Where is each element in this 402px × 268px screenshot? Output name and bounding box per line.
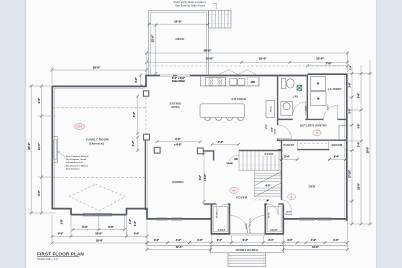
svg-text:x 6'-8": x 6'-8" [205, 174, 207, 181]
svg-text:Specifications: Specifications [66, 167, 81, 170]
svg-text:3'-0": 3'-0" [217, 239, 223, 242]
right dim line outer 26'-6" [367, 60, 372, 225]
post column A [143, 91, 148, 96]
leader to deck stairs [213, 3, 217, 9]
dashed ceiling line lower [53, 176, 146, 178]
eating area label [170, 101, 182, 109]
interior wall: lav/laundry partition [306, 75, 308, 120]
left background band [0, 0, 26, 268]
svg-text:24'-0": 24'-0" [27, 142, 31, 150]
right dim line inner [349, 65, 354, 225]
svg-text:36x80: 36x80 [246, 222, 248, 229]
svg-text:12'-0": 12'-0" [259, 57, 267, 61]
dim row 18'-0" [51, 238, 149, 244]
svg-text:3'-0": 3'-0" [268, 239, 274, 242]
dim 4'-6" hall opening [211, 141, 240, 146]
front steps [228, 253, 266, 267]
pantry shelf dashed [300, 143, 328, 145]
exterior wall: porch north right [283, 218, 347, 221]
dim 12'-0" deck width [148, 19, 210, 25]
svg-text:10'-0": 10'-0" [95, 232, 103, 236]
dim 3'-4" broom opening [328, 156, 348, 161]
svg-text:See Exterior Stair Notes: See Exterior Stair Notes [175, 3, 206, 7]
eating area dashed opening line [145, 98, 147, 134]
dashed ceiling line upper [53, 107, 146, 109]
interior wall: foyer south [204, 203, 284, 205]
svg-text:x 6'-8": x 6'-8" [174, 143, 182, 146]
svg-text:BUTLER'S PANTRY: BUTLER'S PANTRY [300, 123, 327, 127]
svg-text:24x60: 24x60 [216, 211, 219, 218]
svg-text:French: French [285, 213, 293, 216]
butlers pantry door 24x80 [273, 125, 291, 139]
washer [311, 77, 326, 91]
svg-text:COAT: COAT [270, 229, 278, 232]
vanity with sink [281, 102, 293, 116]
toilet [281, 78, 294, 88]
french door 30x80 to den [282, 200, 293, 216]
room tag (red oval) family room [75, 123, 85, 129]
dim row porch y240 [146, 239, 349, 244]
svg-text:STAIR: STAIR [265, 152, 274, 156]
interior wall: stair east / den west [281, 150, 283, 200]
extension lines bottom-left [52, 215, 147, 249]
interior wall: pantry row south [278, 149, 347, 151]
coat closet right [265, 204, 283, 234]
dim 3'-4" pantry opening [279, 156, 299, 161]
svg-text:4'-8": 4'-8" [358, 124, 361, 129]
dim 2'-0" jog [135, 74, 142, 88]
exterior wall: family room south [52, 208, 148, 215]
patio slider [160, 75, 190, 76]
exterior wall: north (kitchen side) [146, 74, 348, 75]
stair upper flight treads [239, 151, 282, 170]
svg-text:4'-0": 4'-0" [265, 184, 270, 187]
svg-text:2'-8": 2'-8" [272, 127, 274, 131]
fireplace note text block [66, 155, 90, 170]
exterior wall: porch north left [147, 218, 212, 221]
stair label [261, 152, 278, 156]
leader to fireplace [58, 152, 65, 157]
L wall kitchen SE [203, 151, 213, 161]
green chase symbol [297, 86, 302, 91]
svg-text:SCALE 3/16" = 1'-0": SCALE 3/16" = 1'-0" [37, 258, 59, 261]
exterior wall: east [345, 74, 347, 222]
svg-text:12'-0": 12'-0" [150, 34, 154, 42]
svg-text:12'-0": 12'-0" [174, 19, 182, 23]
svg-text:12'-6": 12'-6" [312, 246, 320, 249]
svg-text:2'-4": 2'-4" [358, 142, 361, 147]
svg-text:3'-4": 3'-4" [334, 156, 340, 159]
svg-text:4'-0": 4'-0" [154, 239, 160, 242]
svg-text:4'-6": 4'-6" [311, 239, 317, 242]
porch landing box [211, 245, 284, 252]
dim row bay 5'-0"/5'-0" [72, 225, 126, 231]
dashed roof overhang line [148, 65, 348, 67]
right background band [376, 0, 402, 268]
room tag (red oval) butlers pantry [313, 130, 321, 136]
front double door [229, 215, 265, 235]
dishwasher DW [247, 78, 258, 86]
svg-text:4'-6": 4'-6" [333, 239, 339, 242]
dim 2'-6" post spacing [132, 136, 139, 152]
post column C [154, 147, 160, 153]
svg-text:5'-8": 5'-8" [350, 109, 352, 114]
svg-text:6'-0": 6'-0" [37, 189, 41, 195]
svg-text:18'-0": 18'-0" [93, 66, 101, 70]
svg-text:Zero Clearance Electric: Zero Clearance Electric [66, 155, 90, 158]
svg-text:4'-0": 4'-0" [134, 232, 140, 236]
svg-text:COAT: COAT [218, 229, 226, 232]
interior wall: laundry south [305, 118, 347, 120]
note: field verify stair location [174, 0, 207, 7]
dim 12'-0" deck depth [150, 24, 157, 75]
svg-text:2'-0": 2'-0" [135, 76, 138, 82]
svg-text:1'-6": 1'-6" [130, 219, 132, 224]
svg-text:3'-4": 3'-4" [284, 156, 290, 159]
svg-text:FAMILY ROOM: FAMILY ROOM [86, 138, 109, 142]
title: first floor plan [37, 252, 84, 262]
interior wall: lav south [278, 118, 293, 120]
svg-text:4'-0": 4'-0" [58, 232, 64, 236]
svg-text:5'-0": 5'-0" [200, 175, 202, 180]
room tag (red oval) den [288, 194, 296, 200]
dim 6'-0" eating area [133, 95, 139, 135]
svg-text:18'-0": 18'-0" [96, 238, 104, 242]
interior wall: stair north [239, 150, 283, 152]
post column D [197, 148, 203, 154]
interior wall: butlers pantry west [277, 119, 279, 141]
deck exterior stairs [209, 11, 232, 29]
svg-text:DECK: DECK [175, 37, 185, 41]
kitchen counter [200, 77, 259, 86]
interior wall: pantry row north [278, 139, 347, 141]
patio slider label [172, 77, 185, 83]
svg-text:Manufacturer's Written: Manufacturer's Written [66, 164, 89, 167]
room tag (red oval) foyer [230, 187, 239, 193]
svg-text:26'-6": 26'-6" [367, 147, 370, 154]
dim 9'-0" x 6'-8" dining opening [156, 138, 202, 146]
svg-text:174: 174 [77, 125, 82, 129]
svg-text:1'-0": 1'-0" [135, 221, 137, 226]
svg-text:9'-0": 9'-0" [175, 138, 181, 141]
svg-text:w/ 12" Transom: w/ 12" Transom [249, 218, 252, 233]
svg-text:6'-0": 6'-0" [243, 239, 249, 242]
svg-text:6'-8": 6'-8" [359, 93, 361, 98]
interior wall: dining west [145, 140, 147, 210]
interior wall: lav west [277, 75, 279, 119]
dim row 12'-4" [146, 246, 212, 251]
svg-text:24x80: 24x80 [273, 128, 276, 135]
svg-text:KITCHEN: KITCHEN [232, 97, 246, 101]
svg-text:2'-6": 2'-6" [132, 140, 135, 146]
svg-text:30x60: 30x60 [306, 105, 308, 112]
exterior wall: family room west [52, 86, 54, 210]
porch edge line [147, 244, 348, 246]
stair lower flight [255, 170, 282, 196]
family room label [86, 138, 109, 146]
exterior wall: jog at eating area [145, 75, 147, 87]
laundry door [324, 105, 338, 119]
svg-text:(Cathedral): (Cathedral) [89, 142, 104, 146]
deck railing [149, 11, 209, 76]
left dim line segments 6'-6"/12'-0"/6'-0" [37, 85, 43, 215]
svg-text:4'-6": 4'-6" [176, 239, 182, 242]
dim 38'-0" overall top [145, 49, 349, 55]
dim row 12'-6" [282, 246, 349, 251]
svg-text:12'-0": 12'-0" [316, 57, 324, 61]
post column B [144, 134, 150, 140]
svg-text:11'-6": 11'-6" [206, 57, 214, 61]
left dim line 24'-0" [27, 85, 33, 215]
svg-text:38'-0": 38'-0" [204, 49, 212, 53]
svg-text:5'-0": 5'-0" [82, 225, 88, 229]
range/cooktop [206, 78, 226, 86]
svg-text:1'-6": 1'-6" [62, 219, 64, 224]
svg-text:24x60: 24x60 [268, 211, 271, 218]
exterior wall: family room north [52, 86, 147, 88]
wall jog dining to porch [146, 208, 148, 220]
extension lines porch [211, 221, 347, 249]
svg-text:6'-6": 6'-6" [37, 97, 41, 103]
extension lines top [147, 52, 348, 72]
svg-text:17'-10": 17'-10" [349, 170, 352, 178]
double sink [230, 78, 245, 85]
svg-text:FRONT PORCH: FRONT PORCH [236, 248, 259, 252]
svg-text:LAUNDRY: LAUNDRY [328, 87, 342, 91]
kitchen window bay triangles [219, 70, 256, 75]
dryer [311, 92, 326, 106]
fireplace F1 [53, 137, 58, 163]
refrigerator [266, 101, 275, 118]
svg-text:DN: DN [234, 159, 238, 161]
left dim extension ticks [29, 86, 56, 213]
svg-text:in Accordance w/: in Accordance w/ [66, 161, 83, 164]
pantry closet [282, 140, 298, 150]
svg-text:4'-0": 4'-0" [287, 239, 293, 242]
svg-text:7'-0": 7'-0" [325, 61, 332, 65]
svg-text:12'-4": 12'-4" [176, 246, 184, 249]
svg-text:4'-0": 4'-0" [197, 239, 203, 242]
svg-text:FOYER: FOYER [236, 196, 248, 200]
svg-text:Fire Fireplace. Install: Fire Fireplace. Install [66, 158, 87, 161]
svg-text:3'-6": 3'-6" [350, 83, 352, 88]
right dim line middle [358, 65, 363, 225]
svg-text:10'-4": 10'-4" [358, 183, 361, 190]
lav door [293, 102, 306, 115]
svg-text:AREA: AREA [171, 105, 181, 109]
svg-text:32x80: 32x80 [227, 163, 234, 165]
svg-text:Refer: Refer [270, 106, 272, 112]
svg-text:PANTRY: PANTRY [283, 143, 294, 147]
dim 18'-0" family room top [51, 63, 148, 84]
dim 7'-0" laundry [306, 61, 349, 67]
right dim extension ticks [349, 74, 373, 225]
svg-text:6'-0": 6'-0" [133, 111, 136, 117]
dim 5'-0" x 6'-8" foyer west opening [200, 152, 207, 203]
svg-text:UP: UP [266, 200, 270, 203]
svg-text:FIRST FLOOR PLAN: FIRST FLOOR PLAN [37, 252, 84, 257]
butlers pantry cabinet [339, 126, 347, 141]
dim 4'-0" stair [263, 184, 273, 188]
dim row 11'-6" / 12'-0" / 12'-0" [145, 57, 349, 64]
dashed ceiling diamond at bay [70, 184, 126, 211]
coat closet left [211, 204, 229, 234]
svg-text:DEN: DEN [309, 184, 316, 188]
svg-text:12'-0": 12'-0" [37, 142, 41, 150]
dim row 4'-0"/10'-0"/4'-0" [51, 232, 149, 238]
bay window unit [84, 213, 112, 216]
svg-text:BROOM: BROOM [332, 143, 343, 147]
svg-text:2'-8": 2'-8" [350, 65, 352, 70]
broom closet [329, 140, 343, 149]
svg-text:5'-0": 5'-0" [108, 225, 114, 229]
kitchen island [200, 104, 245, 123]
svg-text:Patio Slider: Patio Slider [172, 80, 185, 83]
svg-text:2'-2": 2'-2" [266, 124, 268, 128]
door 32x80 to hall [225, 155, 239, 167]
svg-text:DINING: DINING [172, 180, 184, 184]
svg-text:DW: DW [251, 81, 256, 84]
svg-text:4'-6": 4'-6" [218, 141, 224, 144]
svg-text:LAV: LAV [293, 94, 299, 98]
